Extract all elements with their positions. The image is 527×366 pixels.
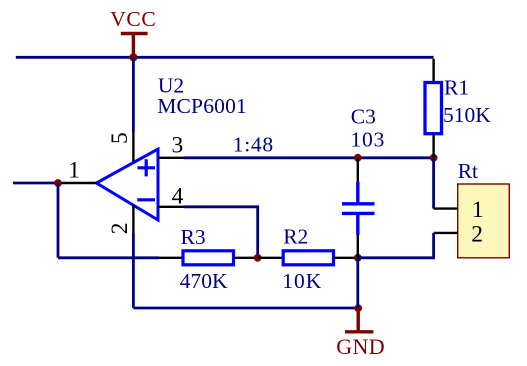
op-amp U2 pin 5 [107, 132, 133, 164]
svg-text:1: 1 [472, 197, 484, 223]
capacitor C3 [342, 158, 375, 258]
junction C3 bottom node [354, 254, 362, 262]
wire feedback horizontal to R3 [58, 256, 159, 259]
op-amp U2 pin 2 [107, 205, 133, 234]
junction R3/R2 node [254, 254, 262, 262]
svg-text:103: 103 [351, 128, 386, 152]
op-amp U2 [97, 149, 159, 220]
wire pin3 net to R1 [184, 156, 434, 159]
svg-text:1: 1 [68, 158, 80, 184]
resistor R1 [425, 59, 442, 158]
svg-text:MCP6001: MCP6001 [157, 94, 247, 118]
wire bottom rail [133, 307, 358, 310]
resistor R3 [159, 251, 258, 265]
power symbol GND [336, 308, 385, 359]
power symbol VCC [110, 7, 156, 57]
svg-text:GND: GND [336, 334, 385, 359]
svg-text:4: 4 [172, 183, 184, 209]
svg-text:R2: R2 [283, 225, 308, 249]
wire R1 bottom to Rt pin 1 [432, 158, 435, 209]
wire VCC column down to op-amp pin 5 [132, 57, 135, 132]
wire C3 bottom to GND rail [356, 258, 359, 308]
svg-text:Rt: Rt [458, 159, 478, 183]
svg-text:5: 5 [107, 132, 133, 144]
wire pin4 net to R3/R2 node [184, 207, 258, 258]
junction GND node [354, 304, 362, 312]
junction R1 bottom [430, 154, 438, 162]
resistor R2 [258, 251, 358, 265]
wire pin2 column down [132, 233, 135, 308]
junction VCC/top rail [129, 53, 137, 61]
op-amp U2 pin 4 [158, 183, 184, 209]
op-amp U2 pin 3 [158, 133, 184, 159]
svg-text:C3: C3 [351, 105, 376, 129]
svg-text:2: 2 [471, 222, 483, 248]
wire top rail [16, 56, 434, 59]
connector Rt [434, 184, 510, 258]
svg-text:R1: R1 [444, 76, 469, 100]
svg-text:3: 3 [172, 133, 184, 159]
svg-text:2: 2 [107, 222, 133, 234]
svg-text:VCC: VCC [110, 7, 156, 31]
svg-text:R3: R3 [181, 225, 206, 249]
junction C3 top [354, 154, 362, 162]
svg-text:1:48: 1:48 [233, 133, 274, 157]
junction pin1 node [54, 179, 62, 187]
wire feedback vertical [57, 183, 60, 258]
svg-text:470K: 470K [180, 269, 228, 293]
svg-text:10K: 10K [282, 269, 322, 293]
wire left stub [13, 182, 58, 185]
wire R2 row to Rt pin 2 [358, 233, 434, 258]
svg-text:510K: 510K [443, 103, 491, 127]
op-amp U2 pin 1 (output) [58, 158, 97, 184]
